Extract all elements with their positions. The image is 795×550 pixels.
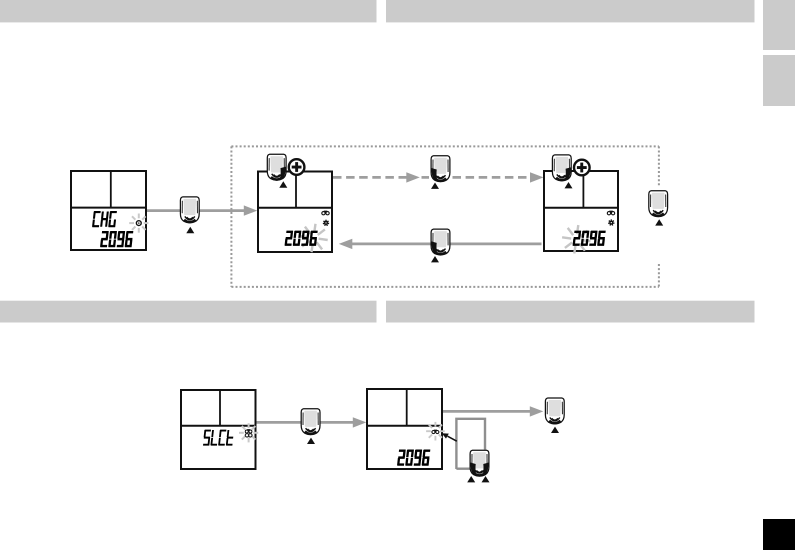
plus circle 2	[574, 160, 590, 176]
page corner black block	[763, 519, 795, 550]
LCD display 3	[544, 171, 618, 254]
arrow 2	[256, 421, 355, 424]
arrow 1	[147, 209, 247, 212]
section bar left	[0, 301, 377, 323]
pointer arrow to icon	[448, 436, 457, 441]
header bar right	[386, 0, 755, 22]
section bar right	[386, 301, 755, 323]
LCD display 2	[258, 172, 332, 253]
button press icon 1	[180, 197, 199, 223]
LCD display 5	[367, 389, 445, 469]
return arrow	[350, 243, 542, 246]
button press icon 3 (with wedge)	[431, 156, 450, 182]
button press icon 6	[649, 191, 668, 217]
button press icon 2 (with wedge)	[267, 154, 286, 180]
edge tab 1	[763, 0, 795, 50]
dashed arrow segment 1	[333, 176, 407, 179]
edge tab 2	[763, 55, 795, 106]
plus circle 1	[289, 159, 305, 175]
header bar left	[0, 0, 377, 22]
button press icon 5 (with wedge)	[431, 229, 450, 255]
LCD display 4	[181, 390, 258, 469]
button press icon 8 (double wedge)	[470, 450, 489, 476]
arrow 3	[443, 410, 531, 413]
selection loop	[456, 419, 485, 469]
dotted procedure box	[231, 146, 659, 287]
button press icon 9	[545, 398, 564, 424]
LCD display 1	[71, 171, 148, 250]
button press icon 7	[301, 409, 320, 435]
button press icon 4 (with wedge)	[552, 155, 571, 181]
dashed arrow segment 2	[453, 176, 531, 179]
